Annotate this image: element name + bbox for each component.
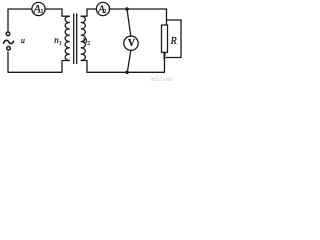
wire primary top lead [62, 9, 69, 16]
ammeter A1 circle [32, 2, 45, 15]
AC source terminal lower [7, 47, 11, 51]
wire secondary bottom [87, 71, 127, 73]
svg-text:u: u [21, 36, 25, 45]
wire top-right step corner [167, 9, 182, 20]
wire secondary top lead [81, 9, 87, 16]
svg-text:1: 1 [59, 41, 62, 47]
wire V branch bottom [127, 50, 131, 72]
resistor R box [162, 25, 168, 53]
ammeter A2 circle [96, 2, 109, 15]
wire A2 to top-right step [109, 8, 167, 10]
svg-text:m5.com: m5.com [150, 75, 173, 82]
wire secondary top: lead to A2 [87, 8, 96, 10]
AC source tilde [4, 40, 14, 43]
wire top-left: source to A1 [8, 9, 32, 31]
wire resistor to bottom-right corner [127, 59, 165, 73]
svg-text:R: R [170, 36, 177, 47]
junction dot bottom of V branch [125, 71, 129, 75]
wire V branch top [127, 9, 131, 36]
svg-text:1: 1 [40, 8, 43, 15]
svg-text:2: 2 [87, 41, 90, 47]
wire primary bottom lead [8, 52, 69, 72]
winding n2 (secondary coil) [81, 16, 85, 60]
wire A1 to transformer primary lead [45, 8, 62, 10]
wire secondary bottom lead [81, 61, 87, 73]
wire right-side branch [167, 20, 182, 58]
junction dot top of V branch [125, 7, 129, 11]
wire step down to resistor box [166, 20, 168, 25]
winding n1 (primary coil) [65, 16, 69, 60]
AC source terminal upper [6, 32, 10, 36]
svg-text:V: V [128, 38, 136, 49]
svg-text:2: 2 [103, 9, 106, 15]
voltmeter V circle [124, 36, 138, 50]
transformer core [74, 14, 77, 64]
wire resistor bottom stub [164, 53, 166, 59]
